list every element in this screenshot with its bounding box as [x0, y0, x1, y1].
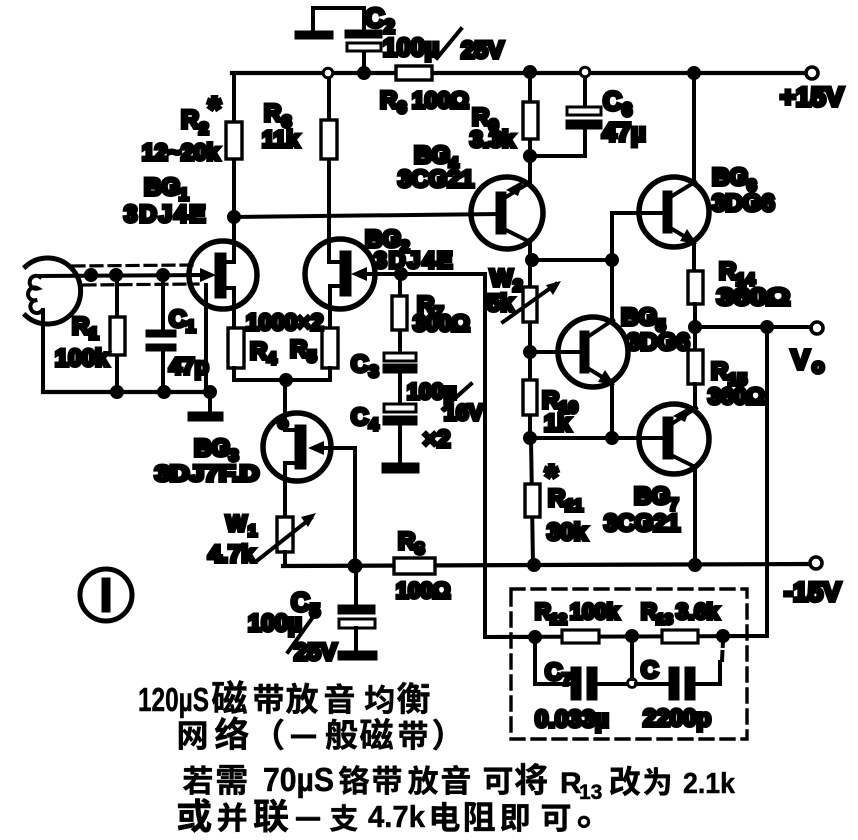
- node R12 left: [530, 632, 540, 642]
- svg-text:3DJ4E: 3DJ4E: [124, 201, 207, 228]
- JFET BG1 (3DJ4E): [189, 217, 257, 328]
- svg-text:120µS: 120µS: [138, 681, 209, 718]
- node R13 right: [718, 631, 728, 641]
- ground bar: [188, 412, 223, 421]
- capacitor C (2200p): [636, 642, 723, 700]
- resistor R13: [662, 630, 698, 643]
- wire R4/R5 bottoms: [234, 368, 330, 380]
- dashed network box: [511, 589, 747, 739]
- wire Vo line: [695, 325, 811, 329]
- svg-text:1: 1: [248, 523, 257, 540]
- svg-text:300Ω: 300Ω: [413, 310, 470, 336]
- svg-text:47µ: 47µ: [602, 117, 646, 147]
- figure number (1): [80, 569, 132, 621]
- JFET BG2 (3DJ4E): [305, 239, 485, 328]
- transistor BG4 (PNP 3CG21): [471, 156, 543, 260]
- node BG7 collector / -15V: [690, 560, 700, 570]
- resistor R4: [228, 328, 244, 368]
- svg-text:25V: 25V: [294, 639, 337, 666]
- svg-text:1: 1: [89, 324, 98, 343]
- resistor R14: [688, 271, 703, 304]
- svg-text:3CG21: 3CG21: [604, 510, 680, 537]
- svg-text:3DJ4E: 3DJ4E: [374, 247, 454, 273]
- node R10/R11: [525, 433, 535, 443]
- wire BG3 drain: [283, 380, 287, 430]
- shield dashes: [73, 265, 192, 266]
- caption line 2: [179, 717, 443, 751]
- node C7/C (small ring): [628, 679, 637, 688]
- wire BG4 collector to BG6 base branch: [532, 258, 612, 262]
- svg-text:BG: BG: [621, 304, 657, 331]
- svg-text:C: C: [603, 86, 622, 116]
- magnetic head: [26, 258, 205, 392]
- capacitor C2: [313, 8, 382, 73]
- resistor R15: [688, 327, 703, 406]
- resistor R7: [392, 274, 407, 354]
- svg-text:4: 4: [369, 415, 379, 434]
- svg-text:C: C: [641, 657, 658, 684]
- svg-text:4: 4: [267, 349, 277, 368]
- node R9 top: [525, 67, 535, 77]
- svg-text:100Ω: 100Ω: [412, 87, 469, 113]
- resistor R1: [110, 275, 125, 392]
- svg-text:30k: 30k: [547, 519, 588, 546]
- svg-text:70µS: 70µS: [263, 761, 334, 798]
- node R3 top (open ring): [323, 68, 333, 78]
- svg-text:11: 11: [565, 496, 583, 515]
- node BG6 base branch: [607, 255, 617, 265]
- svg-text:W: W: [226, 511, 247, 536]
- wire R12/R13 line: [485, 636, 767, 637]
- svg-text:R: R: [711, 358, 728, 385]
- transistor BG5 (NPN 3DG6): [530, 260, 628, 438]
- svg-text:4.7k: 4.7k: [208, 541, 255, 568]
- svg-text:100µ: 100µ: [248, 610, 302, 637]
- wire -15V rail: [283, 564, 808, 566]
- ground bar C4: [382, 463, 419, 473]
- resistor R6: [396, 66, 432, 80]
- node R11 / -15V: [529, 560, 539, 570]
- wire +15V rail: [232, 71, 804, 75]
- node C2/rail: [359, 68, 369, 78]
- node head/shield: [86, 270, 96, 280]
- node W2/R10/BG5 base: [525, 347, 535, 357]
- node A (BG1 drain / R2 / BG4 base): [229, 212, 239, 222]
- capacitor C4: [383, 404, 417, 464]
- node BG4 collector / W2 top: [527, 255, 537, 265]
- wire BG3 gate to C5 node: [353, 448, 357, 566]
- svg-text:2200p: 2200p: [643, 705, 711, 732]
- caption line 4: [178, 798, 590, 834]
- svg-text:1k: 1k: [544, 410, 571, 437]
- wire R2 branch: [232, 73, 236, 217]
- svg-text:R: R: [250, 338, 267, 365]
- svg-text:C: C: [351, 351, 368, 378]
- svg-text:R: R: [181, 106, 199, 134]
- svg-text:BG: BG: [414, 142, 450, 169]
- svg-text:360Ω: 360Ω: [708, 383, 765, 409]
- terminal Vo: [811, 322, 823, 334]
- svg-text:100Ω: 100Ω: [396, 578, 450, 603]
- svg-text:o: o: [812, 356, 824, 378]
- svg-text:3.3k: 3.3k: [470, 126, 515, 152]
- terminal +15V: [806, 67, 818, 79]
- capacitor C3: [383, 353, 417, 405]
- node R12/R13: [627, 631, 637, 641]
- wire R9 bottom to C6: [530, 154, 585, 158]
- wire shield to ground: [204, 285, 208, 392]
- svg-text:3.6k: 3.6k: [676, 599, 720, 624]
- svg-text:R: R: [290, 336, 307, 363]
- node C1 top: [158, 270, 168, 280]
- svg-text:R: R: [548, 485, 565, 512]
- svg-text:8: 8: [415, 539, 424, 558]
- node R9 bottom: [525, 151, 535, 161]
- svg-text:3DG6: 3DG6: [627, 329, 690, 356]
- svg-text:1: 1: [186, 317, 195, 336]
- node R4/R5/BG3 drain: [281, 375, 291, 385]
- svg-text:3: 3: [369, 362, 378, 381]
- wire R12/R13 node down: [630, 641, 634, 679]
- terminal -15V: [810, 557, 822, 569]
- svg-text:C: C: [365, 3, 385, 33]
- svg-text:4.7k: 4.7k: [368, 799, 426, 834]
- wire to ground bar: [208, 392, 212, 412]
- node BG6 collector / rail: [689, 68, 699, 78]
- svg-text:5k: 5k: [487, 290, 514, 317]
- capacitor C6: [566, 73, 602, 156]
- svg-text:C: C: [169, 306, 186, 333]
- svg-text:V: V: [791, 344, 810, 375]
- resistor R2: [226, 122, 242, 159]
- svg-text:1000×2: 1000×2: [246, 309, 323, 335]
- svg-text:×2: ×2: [423, 426, 450, 453]
- svg-text:12: 12: [550, 611, 567, 628]
- svg-text:47p: 47p: [169, 353, 209, 379]
- slash C5 label: [288, 610, 318, 652]
- resistor R12: [562, 630, 599, 643]
- wire R9 branch: [528, 73, 532, 156]
- potentiometer W2: [503, 260, 561, 352]
- capacitor C5: [338, 566, 375, 652]
- node ground tap: [205, 387, 215, 397]
- capacitor C7: [535, 641, 630, 700]
- JFET BG3 (3DJ7F.D): [263, 413, 355, 517]
- node R14/R15/Vo: [690, 322, 700, 332]
- svg-text:-15V: -15V: [784, 577, 841, 607]
- capacitor C1: [146, 275, 176, 392]
- svg-text:360Ω: 360Ω: [717, 284, 790, 311]
- svg-text:R: R: [264, 100, 281, 127]
- caption line 1: [138, 680, 429, 718]
- svg-text:W: W: [490, 265, 513, 292]
- node BG5 emitter / BG7 base: [607, 433, 617, 443]
- svg-text:100k: 100k: [570, 599, 620, 624]
- svg-text:C: C: [545, 659, 562, 686]
- svg-text:3DJ7F.D: 3DJ7F.D: [155, 461, 259, 486]
- svg-text:5: 5: [307, 347, 316, 366]
- svg-text:3DG6: 3DG6: [712, 190, 775, 217]
- svg-text:6: 6: [397, 98, 406, 117]
- node R1 bottom: [112, 387, 122, 397]
- node R1 top: [111, 270, 121, 280]
- transistor BG6 (NPN 3DG6): [639, 73, 709, 271]
- node BG2 gate / R7: [396, 269, 406, 279]
- svg-text:25V: 25V: [461, 37, 504, 64]
- svg-text:3CG21: 3CG21: [398, 166, 474, 193]
- wire BG7 base line: [530, 436, 664, 440]
- wire R14 to Vo node: [693, 304, 697, 327]
- svg-text:0.033µ: 0.033µ: [535, 706, 609, 733]
- svg-text:BG: BG: [144, 174, 180, 201]
- svg-text:2: 2: [513, 276, 522, 295]
- wire feedback BG2 gate to R12 net: [485, 274, 535, 637]
- svg-text:R: R: [535, 599, 551, 624]
- transistor BG7 (PNP 3CG21): [639, 384, 709, 565]
- slash C3C4 label: [443, 384, 471, 409]
- svg-text:BG: BG: [194, 435, 230, 462]
- svg-text:BG: BG: [712, 164, 748, 191]
- svg-text:*: *: [208, 90, 221, 127]
- svg-text:R: R: [72, 313, 89, 340]
- svg-text:13: 13: [656, 611, 673, 628]
- resistor R8: [394, 558, 435, 574]
- svg-text:R: R: [380, 87, 397, 114]
- wire R3 branch: [327, 78, 331, 262]
- resistor R5: [322, 328, 338, 368]
- svg-text:+15V: +15V: [780, 82, 844, 112]
- svg-text:C: C: [351, 404, 368, 431]
- svg-text:100µ: 100µ: [383, 34, 439, 62]
- svg-text:13: 13: [579, 781, 602, 804]
- svg-text:16V: 16V: [444, 400, 483, 425]
- svg-text:100k: 100k: [55, 345, 109, 372]
- node C1 bottom: [159, 387, 169, 397]
- svg-text:2.1k: 2.1k: [683, 768, 736, 800]
- ground bar at C2: [295, 31, 333, 39]
- caption line 3: [183, 761, 736, 804]
- resistor R3: [321, 120, 337, 159]
- svg-text:12~20k: 12~20k: [142, 139, 220, 165]
- wire feedback from Vo: [723, 327, 767, 636]
- wire ground line: [43, 390, 210, 394]
- wire BG6 base: [612, 213, 664, 260]
- potentiometer W1: [258, 513, 316, 566]
- node Vo feedback: [762, 322, 772, 332]
- svg-text:BG: BG: [634, 483, 670, 510]
- slash C2 label: [437, 29, 461, 58]
- svg-text:R: R: [398, 528, 415, 555]
- svg-text:7: 7: [562, 670, 571, 689]
- ground bar C5: [338, 651, 377, 660]
- node W1/C5/R8/BG3 gate: [350, 561, 361, 572]
- resistor R9: [523, 102, 538, 139]
- svg-text:R: R: [719, 258, 736, 285]
- svg-text:11k: 11k: [262, 126, 299, 152]
- resistor R11: [525, 438, 540, 565]
- wire node A to BG4 base: [234, 214, 497, 217]
- resistor R10: [523, 352, 537, 438]
- node C6 top (open ring): [580, 67, 590, 77]
- svg-text:R: R: [641, 599, 657, 624]
